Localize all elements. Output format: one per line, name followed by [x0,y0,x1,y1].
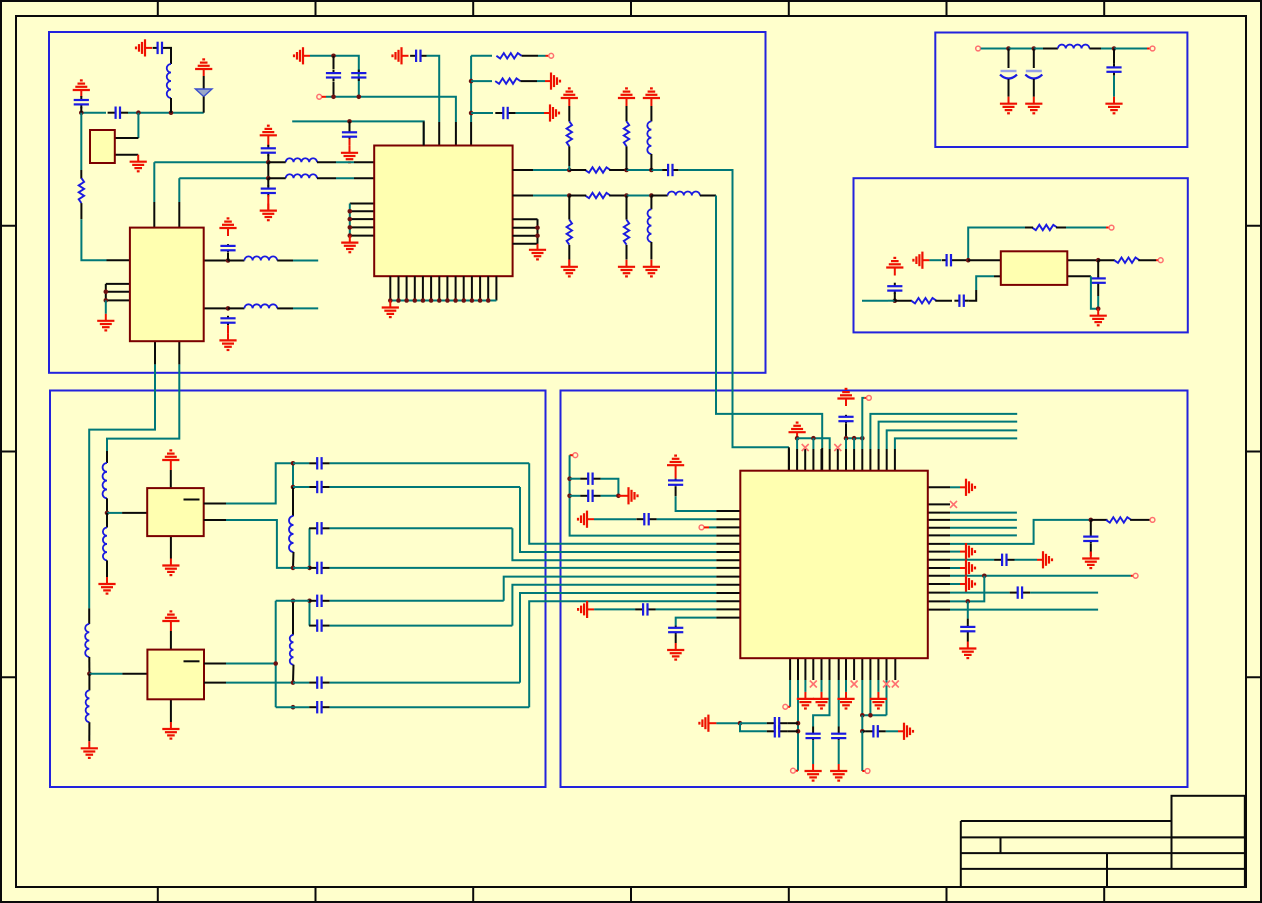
wire tie [349,204,351,236]
power port [73,80,90,97]
no-connect [810,681,817,688]
capacitor C-h [495,107,515,119]
power port [561,88,578,106]
wire pin lead [204,307,228,309]
wire [471,55,492,57]
wire pin lead [204,663,226,665]
wire [797,680,799,771]
junction [1006,46,1011,51]
wire pin lead [716,551,740,553]
component X2 [147,650,204,700]
wire [950,600,968,602]
resistor R4 [585,193,610,198]
wire stub [293,260,318,262]
wire U2 to X2 net [107,364,179,451]
wire row6 rise [512,585,716,626]
capacitor C30 [767,725,787,737]
wire [1034,48,1043,50]
ground [130,155,147,172]
junction [348,233,353,238]
junction [624,168,629,173]
ground [162,559,179,576]
wire [796,438,798,449]
wire [330,462,530,464]
junction [860,436,865,441]
junction [453,298,458,303]
open terminal [976,46,981,51]
wire [516,112,544,114]
junction [348,209,353,214]
wire tie [105,284,107,301]
capacitor C22 [1083,535,1098,543]
capacitor C1 [662,164,678,176]
junction [291,566,296,571]
wire pin lead [107,259,130,261]
wire pin lead [716,518,740,520]
capacitor C23 [994,554,1014,566]
U3 right pin leads [928,487,950,609]
ground [898,723,913,740]
wire X2 pin1 stub [226,663,276,665]
wire pin lead [716,600,740,602]
wire [293,462,309,464]
junction [966,258,971,263]
power port [294,47,310,64]
junction [412,298,417,303]
inductor L8 [1058,45,1090,49]
wire pin lead [115,154,138,156]
wire [657,518,717,520]
wire pin lead [455,122,457,146]
capacitor C-c [153,42,167,54]
wire [609,169,626,171]
power port [136,39,152,56]
ground [643,260,660,277]
wire [471,112,493,114]
wire [88,657,90,674]
wire [227,325,229,333]
power port [393,47,409,64]
wire [1106,227,1109,229]
wire row7 rise [520,593,716,683]
junction [421,298,426,303]
wire [609,195,626,197]
ground [837,692,854,709]
open terminal [1150,46,1155,51]
wire pin lead [821,448,823,471]
wire [1147,48,1150,50]
sub-circuit box bottom-left [50,391,546,788]
wire tie x309 bottom [309,601,311,626]
ground [1037,551,1052,568]
wire [1091,519,1108,521]
wire [864,397,866,399]
wire [861,715,863,731]
wire pin lead [204,503,226,505]
wire [203,76,205,89]
junction [982,574,987,579]
power port [913,252,929,269]
wire U2 pin1 riser [153,162,155,202]
no-connect [834,444,841,451]
title block [961,796,1245,887]
wire pin lead [716,617,740,619]
power port [260,126,277,147]
wire [568,146,570,166]
capacitor C-g [410,50,426,62]
wire pin lead [716,584,740,586]
capacitor C5 [954,295,968,307]
wire row8 rise [529,601,716,707]
wire [80,203,82,219]
inductor L12 [86,690,90,722]
wire [533,169,569,171]
wire pin lead [716,535,740,537]
junction [649,193,654,198]
wire to crystal box pin1 [137,113,139,138]
wire row1 drop [529,463,716,544]
power port [643,88,660,106]
wire [651,195,667,197]
ground [529,244,546,260]
wire [950,567,960,569]
capacitor C-i [261,145,276,156]
junction [79,110,84,115]
no-connect [892,681,899,688]
wire vertical x471 to U1 [470,56,472,122]
capacitor C-d [342,129,357,140]
U1 left pin group [350,204,374,236]
junction [266,176,271,181]
sub-circuit box top-left [49,32,766,373]
junction [860,729,865,734]
wire [626,245,628,260]
wire [88,608,90,624]
wire [570,454,573,456]
junction [291,599,296,604]
ground [960,543,975,560]
wire cluster left tie [570,455,717,535]
junction [331,54,336,59]
junction [567,476,572,481]
wire [709,526,716,528]
wire X1 pin1 to row1 [226,463,293,503]
wire [268,161,285,163]
wire row y178 [179,177,268,179]
wire [317,161,336,163]
wire stub [950,512,1017,514]
wire [1090,543,1092,551]
wire pin lead [204,260,228,262]
wire [838,680,840,727]
wire left column to U2 [81,219,106,260]
inductor L5 [647,121,651,154]
capacitor C16 [636,513,656,525]
ground [341,236,358,253]
wire pin lead [513,169,533,171]
wire [106,577,108,584]
open terminal [1150,518,1155,523]
capacitor C15 [668,478,683,486]
wire [888,300,895,302]
resistor R10 [1106,517,1131,522]
wire [568,245,570,260]
inductor L-a [167,64,171,98]
ground [618,260,635,277]
capacitor C24 [1010,586,1030,598]
wire [330,625,513,627]
wire [1090,552,1092,557]
wire [538,55,546,57]
power port [578,601,594,618]
wire [336,177,354,179]
capacitor C-j [261,185,276,196]
wire pin lead [716,543,740,545]
ground [960,559,975,576]
ground [1090,309,1107,326]
wire [568,196,570,220]
inductor L13 [289,516,294,552]
wire [861,680,863,715]
wire [267,178,269,186]
power port [699,715,716,732]
capacitor C-k [220,244,235,252]
junction [291,680,296,685]
ground [667,643,684,660]
power port [667,456,684,479]
junction [852,436,857,441]
wire tie [390,300,496,302]
ground [1000,97,1017,114]
wire [886,680,888,715]
junction [307,566,312,571]
junction [136,110,141,115]
wire pin lead [968,259,1001,261]
wire row2 drop [520,487,716,552]
wire [292,463,294,487]
wire [853,438,855,449]
wire row5 rise [504,577,717,601]
resistor R-left [79,178,84,203]
wire pin lead [716,576,740,578]
wire [349,139,351,146]
junction [811,436,816,441]
ground [1082,552,1099,569]
capacitor C18 [580,490,600,502]
wire node row to triangle stem [128,112,204,114]
wire bus3 [887,430,1018,449]
wire [1113,49,1115,64]
wire [950,551,960,553]
open terminal [867,396,872,401]
power port [837,389,854,406]
wire [812,438,814,449]
wire [796,770,798,772]
junction [104,289,109,294]
wire pin lead [1066,275,1091,277]
wire [336,161,354,163]
wire [292,601,294,635]
wire row3 drop [512,528,716,560]
wire [308,527,310,529]
capacitor C20 [668,626,683,635]
junction [104,298,109,303]
wire [969,290,976,301]
capacitor C2 [1106,64,1121,76]
wire [80,107,82,113]
junction [348,217,353,222]
wire [950,486,960,488]
inductor L7 [648,209,652,242]
wire [330,600,504,602]
capacitor series C-a [108,107,128,119]
junction [1089,518,1094,523]
junction [404,298,409,303]
wire X1 pin2 to row4 [226,520,293,568]
junction [535,225,540,230]
ground [219,333,236,350]
power port [162,611,179,631]
wire [956,259,968,261]
capacitor C19 [635,603,655,615]
junction [388,298,393,303]
component Y1 box [90,130,115,163]
wire [1056,227,1066,229]
wire [292,552,295,568]
junction [226,258,231,263]
diode TVS triangle [195,89,212,97]
wire [105,300,107,313]
junction [478,298,483,303]
ground [162,722,179,739]
inductor L11 [85,624,89,657]
wire tie [537,219,539,244]
wire [1098,259,1115,261]
open terminal [1158,258,1163,263]
inductor L4 [244,304,277,308]
inductor L6 [668,191,700,195]
wire [862,770,865,772]
wire [788,706,790,708]
wire [1097,260,1099,276]
wire pin lead [354,177,374,179]
junction [868,713,873,718]
junction [1112,46,1117,51]
resistor R9 [1114,258,1139,263]
wire top tie A [797,438,830,449]
junction [266,160,271,165]
junction [87,672,92,677]
wire [170,631,172,650]
inductor L9 [103,463,107,498]
ground [805,764,822,781]
wire [167,48,171,64]
X1 inner mark [184,499,200,501]
U3 top pin leads [789,449,895,471]
ground [1025,97,1042,114]
wire [1097,285,1099,296]
junction [796,721,801,726]
sub-circuit box bottom-right [561,391,1188,788]
resistor R-b [495,78,520,83]
wire [862,300,888,302]
power port [162,450,179,470]
wire [1066,227,1106,229]
wire U2 pin2 riser [178,178,180,202]
wire [330,527,513,529]
wire [804,680,806,692]
capacitor C7 [309,457,329,469]
junction [291,461,296,466]
junction [624,193,629,198]
wire [845,680,847,692]
inductor L10 [103,528,107,561]
wire [967,619,969,625]
junction [738,721,743,726]
resistor R6 [624,220,629,245]
capacitor C-b [74,96,89,108]
wire [895,300,912,302]
capacitor C17 [580,473,600,485]
wire [537,80,545,82]
wire pin lead [122,512,147,514]
wire net row y96 to U1 [326,97,456,122]
inductor L3 [244,256,277,260]
ground [382,301,399,318]
wire [546,55,549,57]
wire [170,98,172,113]
junction [347,119,352,124]
wire [812,727,814,732]
wire [869,680,871,715]
wire [935,300,952,302]
power port [886,258,903,276]
wire pin lead [788,447,790,470]
wire [522,55,538,57]
wire [1008,49,1010,69]
capacitor CP2 [1025,71,1042,79]
capacitor C-e [326,70,341,81]
wire [650,154,652,170]
inductor L1 [286,158,317,162]
wire [568,106,570,121]
capacitor C28 [865,725,885,737]
wire top tie B [846,437,862,439]
ground [830,764,847,781]
resistor R2 [567,121,572,146]
wire [967,634,969,642]
wire left column down [80,113,82,170]
ground [260,204,277,221]
open terminal [317,94,322,99]
junction [226,306,231,311]
wire [627,195,652,197]
wire [877,680,879,692]
junction [307,599,312,604]
wire [227,253,229,261]
wire [862,398,864,438]
wire pin lead [423,121,425,145]
capacitor C13 [309,676,329,688]
ground [870,692,887,709]
wire [656,608,717,610]
junction [1096,306,1101,311]
IC U3 [740,471,928,659]
ground [1105,97,1122,114]
junction [331,95,336,100]
U1 bottom pin group [390,276,496,300]
junction [844,436,849,441]
